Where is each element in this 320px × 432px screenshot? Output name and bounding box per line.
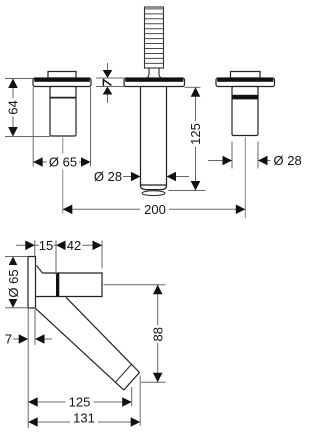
dimension diameter 28 (right handle shaft) xyxy=(208,142,271,169)
wall rosette (side view) xyxy=(28,257,36,309)
svg-text:15: 15 xyxy=(39,238,53,253)
spout body black band xyxy=(56,273,59,297)
diagonal spout tube xyxy=(36,297,140,390)
svg-text:200: 200 xyxy=(144,202,166,217)
svg-text:88: 88 xyxy=(150,327,165,341)
aerator band (front view) xyxy=(142,191,165,196)
dimension diameter 28 (center pipe) xyxy=(123,176,189,178)
dimension 7 (rosette thickness, side view) xyxy=(13,308,52,428)
dimension diameter 65 (rosette, side view) xyxy=(5,257,28,308)
handle centerlines xyxy=(63,137,246,218)
dimension 7 (center flange height) xyxy=(96,63,124,103)
center escutcheon flange xyxy=(124,78,185,87)
right handle shaft xyxy=(232,87,258,136)
dimension 131 (bottom of side view) xyxy=(28,376,140,427)
rod neck xyxy=(147,68,161,78)
right handle knob xyxy=(231,72,261,79)
right handle flange xyxy=(216,78,275,87)
dimension 88 (right of side view) xyxy=(104,285,166,382)
rosette chamfer xyxy=(37,266,43,274)
dimension 125 (bottom of side view) xyxy=(28,387,132,406)
left handle shaft xyxy=(50,87,76,137)
dimension 15 / 42 (top of side view) xyxy=(16,241,102,276)
threaded rod xyxy=(145,7,164,68)
svg-text:7: 7 xyxy=(5,332,12,347)
dimension diameter 65 (left handle) xyxy=(33,87,90,167)
spout body (side view) xyxy=(36,273,102,297)
dimension 125 (center, right side) xyxy=(169,87,206,190)
svg-text:42: 42 xyxy=(67,238,81,253)
dimension 200 (bottom of top view) xyxy=(63,208,246,210)
svg-text:131: 131 xyxy=(73,410,95,425)
dimension 64 (left) xyxy=(5,79,50,137)
svg-text:Ø 28: Ø 28 xyxy=(94,169,122,184)
svg-text:64: 64 xyxy=(6,100,21,114)
svg-text:Ø 65: Ø 65 xyxy=(49,155,77,170)
svg-text:125: 125 xyxy=(188,123,203,145)
svg-text:Ø 65: Ø 65 xyxy=(6,269,21,297)
left handle knob xyxy=(48,72,76,79)
svg-text:125: 125 xyxy=(69,394,91,409)
svg-text:Ø 28: Ø 28 xyxy=(274,153,302,168)
center spout pipe (front view) xyxy=(141,87,167,190)
left handle flange xyxy=(33,78,91,87)
